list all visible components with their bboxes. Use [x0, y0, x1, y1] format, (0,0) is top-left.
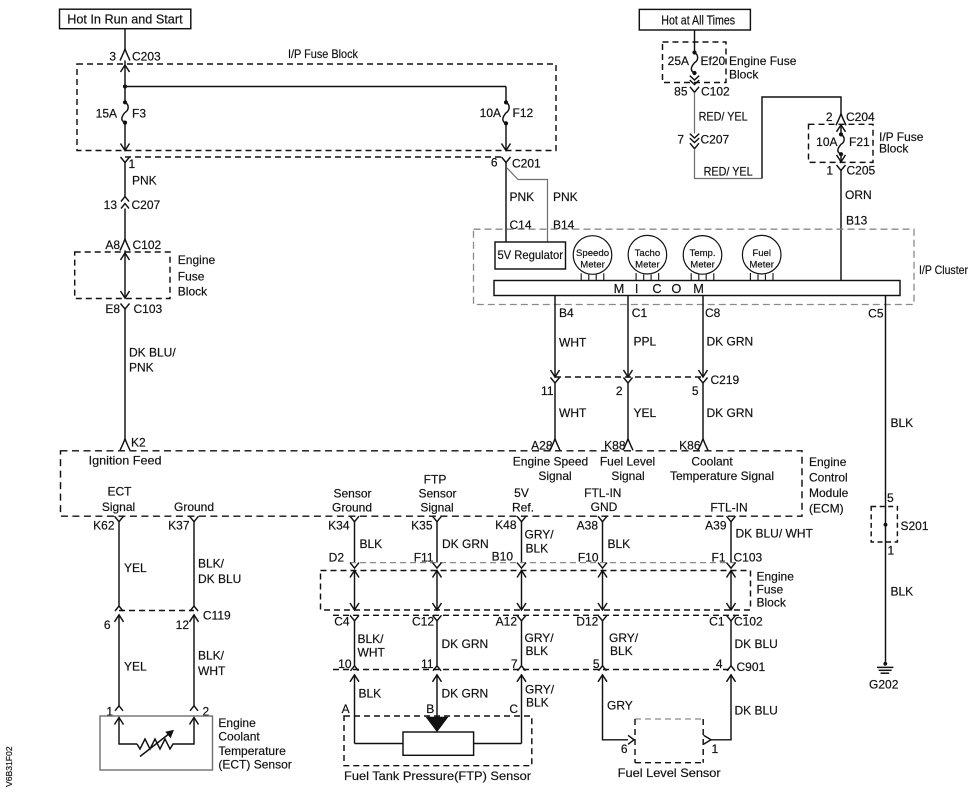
svg-text:E8: E8	[105, 302, 120, 316]
junction node at F3 top feed	[123, 84, 127, 88]
wire YEL C119 to ECT sensor pin 1	[118, 615, 120, 706]
wire B4 WHT from MICOM to C219	[554, 296, 556, 378]
svg-text:C5: C5	[868, 307, 884, 321]
svg-text:C102: C102	[133, 238, 162, 252]
connector C901 pin 4	[727, 666, 735, 671]
gauge Speedo Meter	[573, 236, 612, 275]
fuse F12 10A	[505, 87, 507, 103]
wire GRY C901 to Fuel Level Sensor pin 6	[603, 675, 629, 740]
svg-text:Coolant: Coolant	[218, 730, 260, 744]
power box: Hot In Run and Start	[60, 9, 191, 29]
svg-text:C8: C8	[705, 306, 721, 320]
svg-text:Ef20: Ef20	[701, 54, 726, 68]
svg-text:PNK: PNK	[132, 174, 157, 188]
svg-text:3: 3	[109, 50, 116, 64]
svg-text:C102: C102	[701, 85, 730, 99]
svg-text:K2: K2	[131, 436, 146, 450]
connector C102 dashed line (bottom)	[333, 614, 748, 616]
wire C207 to C102	[124, 209, 126, 240]
svg-text:15A: 15A	[96, 107, 117, 121]
svg-text:Hot at All Times: Hot at All Times	[661, 13, 735, 28]
svg-text:Block: Block	[757, 596, 787, 610]
svg-text:I: I	[635, 281, 639, 296]
svg-text:BLK/: BLK/	[198, 648, 225, 662]
connector C219 pin 5	[699, 378, 708, 384]
ECM pin K35 connector	[433, 516, 442, 522]
power box: Hot at All Times	[639, 9, 750, 30]
svg-text:11: 11	[541, 384, 554, 398]
svg-text:DK GRN: DK GRN	[707, 335, 754, 349]
svg-text:A: A	[342, 702, 350, 716]
svg-text:Ref.: Ref.	[512, 501, 534, 515]
fuel meter legs	[749, 273, 751, 281]
svg-text:WHT: WHT	[559, 406, 587, 420]
svg-text:Fuel Level Sensor: Fuel Level Sensor	[618, 766, 721, 780]
wire DK BLU C1 to pin 4	[730, 621, 732, 666]
Engine Coolant Temperature (ECT) Sensor box	[100, 716, 213, 770]
wire BLK C901 to FTP sensor A	[354, 675, 356, 744]
svg-text:C12: C12	[412, 615, 434, 629]
ECM pin A39 connector	[727, 516, 736, 522]
svg-text:B: B	[426, 702, 434, 716]
connector C201 pin 6	[502, 157, 511, 163]
I/P Cluster dashed box	[474, 229, 915, 304]
wire BLK/WHT C119 to ECT sensor pin 2	[193, 615, 195, 706]
connector C102 pin A8	[120, 239, 130, 251]
FTP sensor wiper arrow (B)	[427, 717, 448, 731]
svg-text:F12: F12	[513, 106, 534, 120]
wire GRY/BLK A12 to pin 7	[521, 621, 523, 666]
svg-text:BLK: BLK	[360, 537, 383, 551]
splice S201 node dot	[884, 523, 888, 527]
svg-text:C203: C203	[132, 50, 161, 64]
connector C901 pin 5	[599, 666, 607, 671]
svg-text:A8: A8	[105, 238, 120, 252]
wire PNK pin1 C201 to C207	[124, 163, 126, 197]
down arrow below F21	[840, 154, 842, 162]
svg-text:V6B31F02: V6B31F02	[4, 746, 14, 787]
connector C103 pin F10	[598, 563, 607, 569]
svg-text:Speedo: Speedo	[576, 248, 609, 259]
wire DK GRN C901 to FTP sensor B	[436, 675, 438, 718]
connector C103 dashed line (gray)	[350, 562, 737, 564]
wire Hot at All Times to fuse Ef20	[694, 30, 696, 53]
connector C201 pin 1 (left)	[121, 157, 130, 163]
connector C219 dashed line	[555, 376, 703, 378]
svg-text:(ECT) Sensor: (ECT) Sensor	[218, 757, 291, 771]
ground G202 symbol	[883, 662, 887, 666]
svg-text:FTL-IN: FTL-IN	[584, 486, 621, 500]
svg-text:Engine: Engine	[178, 253, 216, 267]
svg-text:K37: K37	[168, 519, 190, 533]
svg-text:Engine Fuse: Engine Fuse	[729, 54, 797, 68]
I/P Fuse Block dashed box (top)	[77, 64, 556, 151]
wire BLK/WHT C4 to pin 10	[354, 621, 356, 666]
svg-text:DK GRN: DK GRN	[442, 687, 489, 701]
svg-text:BLK: BLK	[891, 585, 914, 599]
svg-text:7: 7	[677, 133, 684, 147]
connector C103 pin E8	[121, 304, 130, 310]
svg-text:Block: Block	[729, 68, 759, 82]
svg-text:DK GRN: DK GRN	[707, 406, 754, 420]
ECT sensor internal wiring	[115, 718, 124, 725]
svg-text:5V: 5V	[514, 486, 529, 500]
connector C119 pin 12	[190, 606, 198, 611]
gauge Fuel Meter	[742, 235, 781, 274]
svg-text:S201: S201	[901, 519, 929, 533]
tacho meter legs	[635, 273, 637, 281]
svg-text:Engine: Engine	[757, 570, 795, 584]
connector C102 pin D12	[598, 615, 607, 621]
svg-text:Coolant: Coolant	[691, 455, 733, 469]
connector C901 pin 11	[433, 666, 441, 671]
svg-text:C1: C1	[632, 306, 648, 320]
svg-text:GRY/: GRY/	[609, 631, 639, 645]
svg-text:I/P Fuse Block: I/P Fuse Block	[288, 47, 359, 61]
connector C102 pin A12	[517, 615, 526, 621]
svg-text:Meter: Meter	[580, 259, 605, 270]
svg-text:GND: GND	[591, 500, 618, 514]
svg-text:Fuse: Fuse	[757, 583, 784, 597]
svg-text:C14: C14	[510, 218, 532, 232]
wire DK GRN C219 to ECM K86	[702, 383, 704, 439]
svg-text:Block: Block	[178, 285, 208, 299]
temp meter legs	[690, 273, 692, 280]
svg-text:F3: F3	[132, 107, 146, 121]
connector C102 pin C12	[433, 615, 442, 621]
ECT variable resistor (thermistor)	[137, 739, 176, 749]
svg-text:13: 13	[104, 198, 118, 212]
svg-text:C1: C1	[709, 615, 725, 629]
Engine Fuse Block dashed box (left)	[75, 252, 170, 299]
svg-text:GRY/: GRY/	[525, 682, 555, 696]
svg-text:6: 6	[491, 156, 498, 170]
wire YEL K62 to C119	[118, 522, 120, 606]
FTP sensor resistor box	[403, 732, 474, 755]
svg-text:PNK: PNK	[129, 361, 154, 375]
svg-text:RED/ YEL: RED/ YEL	[704, 165, 753, 179]
svg-text:Engine Speed: Engine Speed	[513, 455, 588, 469]
svg-text:G202: G202	[869, 678, 899, 692]
svg-text:O: O	[671, 281, 681, 296]
wire BLK A38 to F10	[602, 522, 604, 563]
wire from Hot In Run and Start down to connector C203	[124, 29, 126, 49]
svg-text:DK BLU/ WHT: DK BLU/ WHT	[736, 527, 814, 541]
svg-text:Module: Module	[809, 486, 849, 500]
svg-text:BLK: BLK	[891, 416, 914, 430]
wire DK BLU C901 to Fuel Level Sensor pin 1	[711, 675, 731, 740]
svg-text:C207: C207	[132, 198, 161, 212]
svg-text:C201: C201	[512, 157, 541, 171]
svg-text:ORN: ORN	[845, 188, 872, 202]
double chevron below fuse Ef20	[690, 76, 699, 80]
connector C901 pin 7	[518, 666, 526, 671]
wire ORN C205 to I/P Cluster B13	[840, 171, 842, 281]
svg-text:K48: K48	[495, 518, 517, 532]
ECM pin K48 connector	[517, 516, 526, 522]
connector C102 pin C1	[727, 615, 736, 621]
I/P Fuse Block dashed box (right)	[809, 124, 874, 162]
svg-text:5: 5	[887, 491, 894, 505]
wire PNK branch to B14 (gray)	[507, 168, 548, 242]
wire through bottom Engine Fuse Block (c3)	[521, 571, 523, 611]
svg-text:BLK: BLK	[610, 644, 633, 658]
Fuel Level Sensor pin 1 connector	[704, 735, 712, 744]
svg-text:DK BLU: DK BLU	[735, 704, 778, 718]
wire through bottom Engine Fuse Block (c4)	[602, 571, 604, 611]
svg-text:C4: C4	[334, 615, 350, 629]
connector C102 pin C4	[350, 615, 359, 621]
svg-text:YEL: YEL	[634, 406, 657, 420]
svg-text:YEL: YEL	[124, 660, 147, 674]
wire BLK S201 to ground G202	[885, 507, 887, 664]
svg-text:Temperature: Temperature	[218, 744, 286, 758]
splice S201 dashed box	[871, 507, 897, 543]
svg-text:4: 4	[716, 657, 723, 671]
connector C119 dashed line	[119, 610, 194, 612]
FTP sensor internal wiring A side	[355, 743, 404, 745]
svg-text:C103: C103	[734, 551, 763, 565]
svg-text:C204: C204	[846, 110, 875, 124]
svg-text:B14: B14	[553, 218, 575, 232]
svg-text:BLK: BLK	[526, 542, 549, 556]
gauge Temp. Meter	[683, 236, 722, 275]
svg-text:A39: A39	[705, 519, 727, 533]
svg-text:FTP: FTP	[424, 473, 447, 487]
svg-text:BLK/: BLK/	[198, 557, 225, 571]
wire DK BLU/PNK from C103 to ECM K2	[124, 309, 126, 439]
svg-text:ECT: ECT	[108, 485, 133, 499]
svg-text:11: 11	[421, 657, 434, 671]
svg-text:DK GRN: DK GRN	[442, 637, 489, 651]
svg-text:1: 1	[129, 157, 136, 171]
MICOM bar	[494, 281, 900, 296]
svg-text:K35: K35	[411, 519, 433, 533]
svg-text:5V Regulator: 5V Regulator	[497, 249, 563, 262]
svg-text:Fuel: Fuel	[752, 248, 771, 259]
gauge Tacho Meter	[628, 235, 667, 274]
svg-text:12: 12	[176, 618, 190, 632]
svg-text:Ground: Ground	[332, 501, 372, 515]
svg-text:Hot In Run and Start: Hot In Run and Start	[67, 12, 183, 27]
svg-text:5: 5	[593, 657, 600, 671]
svg-text:Fuse: Fuse	[178, 270, 205, 284]
svg-text:A38: A38	[577, 519, 599, 533]
wire C5 BLK from MICOM down right side	[885, 296, 887, 507]
svg-text:D12: D12	[576, 615, 598, 629]
svg-text:C: C	[509, 702, 518, 716]
ECT sensor pin 2	[190, 706, 198, 711]
svg-text:DK BLU: DK BLU	[735, 637, 778, 651]
svg-text:B10: B10	[492, 550, 514, 564]
svg-text:Signal: Signal	[420, 501, 453, 515]
svg-text:C207: C207	[701, 133, 730, 147]
connector C207 pin 13 (double half-connector)	[121, 197, 129, 202]
wire PNK C201 pin6 to 5V Regulator C14	[505, 163, 507, 243]
Fuel Level Sensor dashed box	[635, 718, 703, 720]
svg-text:FTL-IN: FTL-IN	[710, 501, 747, 515]
wire YEL C219 to ECM K88	[627, 383, 629, 439]
connector C205 pin 1	[837, 165, 846, 171]
connector C102 pin 85	[690, 87, 699, 93]
svg-text:25A: 25A	[668, 54, 689, 68]
svg-text:Control: Control	[809, 471, 848, 485]
svg-text:Temp.: Temp.	[689, 248, 715, 259]
connector C204 pin 2	[836, 114, 846, 126]
ECM pin K34 connector	[350, 516, 359, 522]
svg-text:Engine: Engine	[809, 455, 847, 469]
wire through bottom Engine Fuse Block (c1)	[354, 571, 356, 611]
svg-text:C103: C103	[134, 302, 163, 316]
svg-text:GRY: GRY	[607, 699, 633, 713]
Fuel Level Sensor pin 6 connector	[628, 735, 634, 744]
speedo meter legs	[580, 273, 582, 280]
svg-text:Sensor: Sensor	[333, 487, 371, 501]
svg-text:DK BLU/: DK BLU/	[129, 346, 176, 360]
svg-text:YEL: YEL	[124, 561, 147, 575]
svg-text:Fuel Tank Pressure(FTP) Sensor: Fuel Tank Pressure(FTP) Sensor	[344, 769, 531, 783]
wire through bottom Engine Fuse Block (c2)	[436, 571, 438, 611]
svg-text:7: 7	[511, 657, 518, 671]
connector C901 dashed line	[333, 669, 733, 671]
wire GRY/BLK C901 to FTP sensor C	[521, 675, 523, 744]
svg-text:F1: F1	[711, 551, 725, 565]
svg-text:Ground: Ground	[174, 500, 214, 514]
svg-text:Engine: Engine	[218, 716, 256, 730]
svg-text:WHT: WHT	[559, 336, 587, 350]
svg-text:BLK: BLK	[608, 537, 631, 551]
svg-text:BLK: BLK	[526, 644, 549, 658]
svg-text:RED/ YEL: RED/ YEL	[699, 110, 748, 124]
svg-text:C102: C102	[734, 615, 763, 629]
connector C103 pin F11	[433, 563, 442, 569]
connector C207 pin 7 (double chevron + half connector)	[690, 134, 699, 138]
svg-text:2: 2	[616, 384, 623, 398]
svg-text:C901: C901	[737, 660, 766, 674]
svg-text:F21: F21	[849, 135, 870, 149]
svg-text:2: 2	[826, 110, 833, 124]
svg-text:Block: Block	[879, 142, 909, 156]
wire BLK/DK BLU K37 to C119	[193, 522, 195, 606]
svg-text:M: M	[693, 281, 704, 296]
wire RED/YEL C102 to C207 (gray)	[694, 92, 696, 133]
svg-text:M: M	[614, 281, 625, 296]
Engine Control Module (ECM) dashed box	[61, 451, 803, 516]
connector C219 pin 2	[624, 378, 633, 384]
svg-text:PPL: PPL	[634, 335, 657, 349]
svg-text:F10: F10	[578, 551, 599, 565]
connector C219 pin 11	[551, 378, 560, 384]
svg-text:B13: B13	[846, 214, 868, 228]
svg-text:PNK: PNK	[553, 190, 578, 204]
svg-text:K34: K34	[328, 519, 350, 533]
fuse F3 15A	[123, 100, 127, 104]
svg-text:Fuel Level: Fuel Level	[600, 455, 655, 469]
wire GRY/BLK K48 to B10	[521, 522, 523, 563]
svg-text:Signal: Signal	[611, 469, 644, 483]
svg-text:I/P Cluster: I/P Cluster	[919, 263, 968, 277]
Fuel Tank Pressure (FTP) Sensor dashed box	[344, 716, 532, 766]
fuse F21 10A with entry arrow	[837, 125, 846, 132]
svg-text:Temperature Signal: Temperature Signal	[670, 469, 774, 483]
connector C201 dashed line	[125, 156, 505, 158]
wire F3 to C201 with down arrow	[124, 123, 126, 151]
svg-text:10: 10	[338, 657, 352, 671]
wire C203 into fuse block with up arrow	[124, 61, 126, 103]
wire F12 to C201 pin 6 with down arrow	[505, 123, 507, 150]
svg-text:DK GRN: DK GRN	[442, 537, 489, 551]
svg-text:BLK: BLK	[526, 696, 549, 710]
svg-text:F11: F11	[414, 551, 434, 565]
svg-text:1: 1	[888, 544, 895, 558]
svg-text:1: 1	[826, 164, 833, 178]
svg-text:Meter: Meter	[749, 259, 774, 270]
wire through left Engine Fuse Block with arrows	[124, 251, 126, 299]
connector C203 pin 3 (half-connector symbol)	[120, 49, 130, 61]
wire through bottom Engine Fuse Block (c5)	[730, 571, 732, 611]
svg-text:1: 1	[712, 742, 719, 756]
fuse Ef20 25A	[692, 50, 696, 54]
wire GRY/BLK D12 to pin 5	[602, 621, 604, 666]
svg-text:6: 6	[104, 618, 111, 632]
svg-text:GRY/: GRY/	[525, 631, 555, 645]
svg-text:6: 6	[621, 742, 628, 756]
svg-text:GRY/: GRY/	[525, 527, 555, 541]
svg-text:85: 85	[674, 85, 688, 99]
svg-text:WHT: WHT	[358, 645, 386, 659]
wire junction to F12 branch (horizontal)	[125, 86, 506, 88]
connector C119 pin 6	[115, 606, 123, 611]
Engine Fuse Block dashed box (bottom)	[321, 571, 751, 611]
svg-text:(ECM): (ECM)	[809, 502, 844, 516]
svg-text:D2: D2	[329, 551, 345, 565]
svg-text:Ignition Feed: Ignition Feed	[89, 454, 162, 468]
ECM pin K62 connector	[115, 516, 124, 522]
wire WHT C219 to ECM A28	[554, 383, 556, 439]
connector C901 pin 10	[351, 666, 359, 671]
ECM pin K37 connector	[190, 516, 199, 522]
wire BLK K34 to D2	[354, 522, 356, 563]
svg-text:BLK: BLK	[359, 687, 382, 701]
svg-text:DK BLU: DK BLU	[198, 572, 241, 586]
svg-text:C205: C205	[847, 164, 876, 178]
connector C103 pin F1	[727, 563, 736, 569]
svg-text:10A: 10A	[480, 106, 501, 120]
svg-text:A12: A12	[496, 615, 518, 629]
wire DK BLU/WHT A39 to F1	[730, 522, 732, 563]
svg-text:BLK/: BLK/	[358, 632, 385, 646]
ECM pin A38 connector	[598, 516, 607, 522]
ECT sensor pin 1	[115, 706, 123, 711]
svg-text:Signal: Signal	[102, 500, 135, 514]
svg-text:B4: B4	[559, 306, 574, 320]
svg-text:10A: 10A	[816, 135, 837, 149]
wire C1 PPL from MICOM to C219	[627, 296, 629, 378]
svg-text:K62: K62	[93, 519, 115, 533]
ECM pin K2 connector	[120, 439, 130, 451]
svg-text:Tacho: Tacho	[635, 248, 661, 259]
svg-text:WHT: WHT	[198, 664, 226, 678]
svg-text:Signal: Signal	[538, 469, 571, 483]
svg-text:Sensor: Sensor	[418, 487, 456, 501]
5V Regulator box	[495, 242, 566, 269]
svg-text:Meter: Meter	[635, 259, 660, 270]
FTP sensor internal wiring C side	[474, 743, 522, 745]
svg-text:Meter: Meter	[690, 259, 715, 270]
wire RED/YEL from C207 to C204 (bend path)	[695, 149, 763, 179]
svg-text:PNK: PNK	[510, 190, 535, 204]
svg-text:C219: C219	[711, 373, 740, 387]
